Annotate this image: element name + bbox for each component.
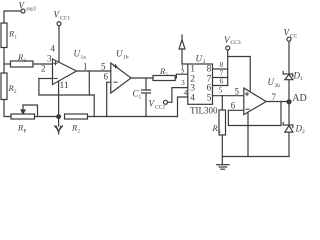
svg-text:5: 5: [207, 93, 212, 103]
svg-text:2: 2: [14, 90, 17, 95]
svg-text:6: 6: [104, 72, 109, 82]
svg-text:P: P: [24, 130, 27, 135]
svg-text:2: 2: [181, 68, 185, 77]
ground: [58, 119, 60, 127]
svg-text:5: 5: [219, 86, 223, 95]
node Vou3 terminal: [21, 9, 25, 13]
svg-text:3: 3: [47, 54, 52, 64]
resistor R3: [11, 61, 34, 67]
wire VCC down through diodes: [288, 41, 290, 156]
svg-text:CC3: CC3: [231, 40, 241, 46]
node VCC3 terminal: [226, 46, 230, 50]
wire U1A feedback loop: [39, 79, 94, 96]
svg-text:7: 7: [272, 92, 277, 102]
svg-text:2: 2: [41, 63, 46, 73]
wire R5 to U3 pin 2: [175, 74, 188, 78]
wire U2B feedback: [228, 102, 281, 126]
svg-text:U: U: [74, 49, 81, 59]
wire node A to R3: [4, 63, 11, 65]
svg-text:1: 1: [300, 76, 303, 82]
wire U3 pin 4 to rail: [178, 97, 188, 117]
wire U1B output: [131, 77, 153, 79]
wire U2B inverting input: [228, 109, 243, 111]
op-amp U1A pin 11: [58, 81, 60, 116]
wire wiper to output: [23, 105, 38, 117]
svg-text:4: 4: [184, 88, 188, 97]
svg-text:2b: 2b: [275, 83, 281, 89]
node B junction dot: [57, 115, 61, 119]
node VCC1 terminal: [57, 22, 61, 26]
svg-text:1a: 1a: [81, 55, 87, 61]
potentiometer R4 body: [11, 114, 35, 119]
wire U1B inverting input feedback: [107, 82, 111, 116]
wire VCC3 vertical: [227, 50, 229, 86]
svg-text:1b: 1b: [123, 55, 129, 61]
wire U3 pin 5 to U2B: [213, 95, 244, 97]
wire R6 to ground: [221, 135, 223, 165]
resistor R5: [153, 76, 175, 81]
svg-text:4: 4: [51, 44, 56, 54]
wire Vou3 to R1: [4, 11, 21, 23]
potentiometer R4 wiper arrow: [21, 110, 25, 114]
wire R3 to op-amp U1A pin 3: [33, 63, 53, 65]
svg-text:4: 4: [190, 93, 195, 103]
wire U2B negative supply: [247, 112, 249, 156]
wire R2 to potentiometer R4: [4, 100, 11, 117]
svg-text:U: U: [116, 49, 123, 59]
wire bottom rail right: [222, 156, 289, 158]
ground earth: [217, 164, 229, 166]
op-amp U2B: [244, 88, 266, 115]
arrow above U3 pin 1: [181, 35, 183, 40]
svg-text:6: 6: [207, 84, 212, 94]
svg-text:CC1: CC1: [60, 16, 70, 22]
svg-text:3: 3: [181, 78, 185, 87]
wire U3 pin 6: [213, 85, 228, 87]
svg-text:5: 5: [101, 61, 106, 71]
resistor R1: [1, 23, 7, 48]
wire VCC3 branch to U2B power: [228, 57, 251, 93]
wire bottom rail: [88, 116, 178, 118]
svg-text:1: 1: [139, 95, 142, 101]
svg-text:AD: AD: [292, 93, 306, 104]
diode D1: [283, 73, 293, 75]
svg-text:CC2: CC2: [155, 105, 165, 111]
wire U1A output to U1B: [77, 70, 111, 72]
op-amp U1A: [53, 59, 77, 85]
resistor R2b bottom: [65, 114, 88, 119]
wire arrow to U3 pin 1: [182, 49, 188, 64]
svg-text:1: 1: [83, 62, 88, 72]
svg-text:U: U: [268, 77, 275, 87]
capacitor C1: [145, 78, 147, 90]
svg-text:CC: CC: [290, 34, 298, 40]
wire R4 to node B: [35, 116, 59, 118]
wire U2B output: [266, 101, 291, 103]
diode D2: [283, 124, 293, 126]
svg-text:ou3: ou3: [27, 6, 36, 13]
node VCC terminal: [287, 37, 291, 41]
svg-text:2: 2: [302, 129, 305, 135]
optocoupler U3 TIL300: [188, 64, 213, 104]
svg-text:2: 2: [78, 130, 81, 135]
op-amp U1A pin 4 power: [58, 26, 60, 62]
wire U1A inverting input: [39, 78, 53, 80]
svg-text:11: 11: [60, 81, 69, 91]
wire feedback to output: [88, 71, 90, 95]
node AD output: [287, 100, 291, 104]
svg-text:6: 6: [231, 101, 236, 111]
svg-text:3: 3: [203, 59, 206, 65]
wire VCC2 to U3 pin 3: [168, 88, 188, 103]
wire R1 to node A: [3, 48, 5, 74]
node VCC2 terminal: [164, 100, 168, 104]
svg-text:5: 5: [235, 87, 240, 97]
svg-text:6: 6: [218, 130, 221, 135]
svg-text:1: 1: [190, 65, 195, 75]
svg-text:1: 1: [15, 36, 18, 41]
resistor R6: [221, 96, 223, 110]
svg-text:3: 3: [190, 84, 195, 94]
svg-text:TIL300: TIL300: [190, 106, 218, 116]
op-amp U1B: [111, 63, 131, 93]
wire U3 pin 7: [213, 77, 228, 79]
svg-text:8: 8: [207, 65, 212, 75]
wire U3 pin 8: [213, 68, 228, 70]
svg-text:U: U: [196, 54, 203, 64]
wire feedback to rail: [93, 95, 95, 117]
resistor R2: [1, 73, 7, 100]
